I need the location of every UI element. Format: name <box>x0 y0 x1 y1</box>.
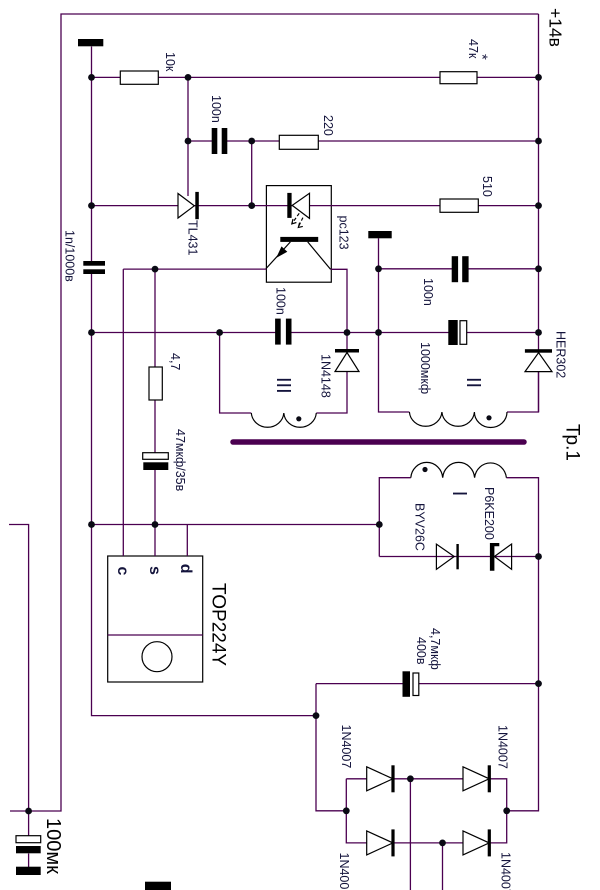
svg-text:II: II <box>462 377 484 388</box>
capacitor C6 1000mkf plates <box>448 320 457 345</box>
wire collector of pc123 to node <box>331 269 348 332</box>
resistor R1 10k <box>120 71 158 84</box>
svg-text:100n: 100n <box>209 95 223 123</box>
wire border loop from +14v rail corner around left side <box>10 14 539 811</box>
svg-text:1N4007: 1N4007 <box>499 852 513 890</box>
node bridge top <box>407 775 414 782</box>
capacitor C4 1n/1000v plates <box>83 261 105 266</box>
wire vertical x=251.7 <box>251 141 253 206</box>
wire TL431 cathode line y=205.6 <box>92 205 539 207</box>
node 100mk x28.6 <box>25 808 32 815</box>
terminal bar top output <box>78 39 103 46</box>
pc123 phototransistor emitter <box>266 242 290 269</box>
svg-text:TOP224Y: TOP224Y <box>208 583 229 666</box>
node y268.8 rail <box>535 265 542 272</box>
capacitor C1 100n top gap <box>216 137 223 146</box>
node clamp rail <box>535 553 542 560</box>
wire s pin vertical x=155 <box>154 269 156 556</box>
svg-text:HER302: HER302 <box>554 331 568 378</box>
wire terminal bar to winding II left leg x=378.5 <box>379 238 410 412</box>
svg-text:TL431: TL431 <box>186 220 200 255</box>
transformer core bar Tp.1 <box>233 439 524 445</box>
svg-text:1N4007: 1N4007 <box>337 853 351 890</box>
terminal bar above pc123 collector <box>368 231 391 238</box>
wire d pin stub <box>186 525 188 557</box>
wire 100n-220 line y=141 <box>188 140 539 142</box>
svg-text:P6KE200: P6KE200 <box>482 487 496 540</box>
wire output minus stub left <box>9 525 29 812</box>
node y524.5 x91.5 <box>88 521 95 528</box>
node y205.6 x91.5 <box>88 202 95 209</box>
node y268.8 x378.5 <box>375 265 382 272</box>
phase dot winding III <box>296 416 301 421</box>
capacitor C5 47mkf/35v gap <box>152 459 158 464</box>
svg-text:Тр.1: Тр.1 <box>562 424 583 461</box>
svg-text:220: 220 <box>321 115 335 136</box>
winding I arcs <box>411 462 507 477</box>
capacitor C2 100n right plates <box>452 256 458 282</box>
resistor R3 220 <box>279 135 318 149</box>
wire bridge left leg <box>316 684 346 811</box>
svg-text:1N4148: 1N4148 <box>319 354 333 398</box>
capacitor C3 100n bottom-left plates <box>275 319 281 345</box>
capacitor C8 100mk gap <box>26 842 31 847</box>
pc123 phototransistor base bar <box>280 237 318 242</box>
node y332.5 x91.5 <box>88 329 95 336</box>
shunt regulator U3 TL431 <box>178 194 194 219</box>
wire winding III left leg <box>220 333 252 414</box>
svg-text:c: c <box>114 567 131 576</box>
node y524.5 x155 <box>152 521 159 528</box>
node emitter line x155 <box>152 266 159 273</box>
diode D3 BYV26C <box>436 544 454 569</box>
capacitor C7 4.7mkf/400v plates <box>403 671 411 697</box>
capacitor C3 100n bottom-left gap <box>280 328 287 337</box>
svg-text:400в: 400в <box>414 637 428 665</box>
svg-text:1N4007: 1N4007 <box>496 725 510 769</box>
wire 4.7mkf line y=683.6 <box>316 683 539 685</box>
node y205.6 rail <box>535 202 542 209</box>
pc123 LED <box>292 193 309 218</box>
capacitor C2 100n right gap <box>457 264 463 274</box>
svg-text:s: s <box>146 566 163 575</box>
svg-text:*: * <box>474 54 491 60</box>
node y205.6 x251.7 <box>248 202 255 209</box>
svg-text:100n: 100n <box>421 278 435 306</box>
optocoupler U1 pc123 body <box>266 186 331 283</box>
diode D1 1N4148 <box>335 353 359 372</box>
node y332.5 rail <box>535 329 542 336</box>
resistor R5 4.7 <box>149 367 162 400</box>
svg-text:1N4007: 1N4007 <box>339 725 353 769</box>
wire TL431 ref stub x=188 <box>187 77 189 196</box>
svg-text:pc123: pc123 <box>337 216 351 250</box>
svg-text:I: I <box>448 491 470 497</box>
wire winding I right leg <box>506 478 538 557</box>
node y141 x251.7 <box>248 138 255 145</box>
svg-text:4,7мкф: 4,7мкф <box>428 628 442 670</box>
wire HER302 lower stub <box>538 372 540 412</box>
wire output plus vertical x=91.5 <box>91 47 93 525</box>
node top line at rail <box>535 74 542 81</box>
node top line at x=91.5 <box>88 74 95 81</box>
svg-text:1n/1000в: 1n/1000в <box>63 230 77 282</box>
wire drain rail y=524.5 <box>92 524 380 526</box>
node y332.5 x378.5 <box>375 329 382 336</box>
resistor R2 47k* <box>440 72 477 84</box>
capacitor C8 100mk plates <box>16 836 41 843</box>
svg-text:10к: 10к <box>163 52 177 72</box>
svg-text:100мк: 100мк <box>42 818 64 874</box>
svg-text:100n: 100n <box>274 287 288 315</box>
wire 100mk cap leads <box>28 811 30 836</box>
svg-text:510: 510 <box>480 176 494 197</box>
wire bridge ac output 2 <box>442 843 444 890</box>
wire source rail lower <box>92 525 317 716</box>
wire top feedback line y=77 <box>92 76 539 78</box>
node bridge right <box>503 807 510 814</box>
terminal bar bottom center <box>145 882 171 890</box>
node y141 x188 <box>185 138 192 145</box>
bridge diode D8 1N4007 bottom-right <box>463 831 489 855</box>
wire 100n right line y=268.8 <box>379 268 539 270</box>
bridge diode D5 1N4007 top-left <box>367 767 393 791</box>
wire bridge ac output 1 <box>409 779 411 890</box>
phase dot winding II <box>486 415 491 420</box>
wire 1N4148 cathode stub <box>346 333 348 350</box>
TOP224Y inner line <box>108 634 203 636</box>
wire +14v vertical rail <box>507 14 539 412</box>
node y524.5 x379.3 <box>376 521 383 528</box>
svg-text:BYV26C: BYV26C <box>413 503 427 551</box>
transil D4 P6KE200 <box>494 544 511 569</box>
svg-text:+14в: +14в <box>546 8 566 47</box>
node y332.5 x347 <box>344 329 351 336</box>
IC U2 TOP224Y body <box>108 556 203 682</box>
node 4.7mkf rail <box>535 680 542 687</box>
winding III arcs <box>251 413 316 427</box>
wire c pin vertical x=123.3 <box>122 269 124 556</box>
winding II arcs <box>409 412 507 428</box>
capacitor C5 47mkf/35v plates <box>143 453 169 460</box>
phase dot winding I <box>422 467 427 472</box>
wire winding I left leg <box>379 478 411 557</box>
node bridge bottom <box>439 840 446 847</box>
node bridge left <box>343 807 350 814</box>
svg-text:4,7: 4,7 <box>168 353 182 370</box>
capacitor C6 1000mkf gap <box>457 329 462 337</box>
wire right rail down to bridge <box>507 557 539 811</box>
node y141 rail <box>535 138 542 145</box>
capacitor C7 4.7mkf/400v gap <box>410 680 414 689</box>
node source rail x316 <box>313 712 320 719</box>
svg-text:d: d <box>177 564 194 574</box>
TOP224Y inner circle <box>142 642 172 672</box>
wire winding III right leg to 1N4148 <box>316 372 347 414</box>
node top line at x=188 <box>185 74 192 81</box>
capacitor C4 1n/1000v gap <box>89 265 94 270</box>
diode D2 HER302 <box>525 353 552 372</box>
wire mid chain y=332.5 <box>92 332 539 334</box>
wire emitter line y=269 <box>123 268 266 270</box>
node y332.5 x219.6 <box>216 329 223 336</box>
terminal bar bottom 100mk <box>16 867 41 875</box>
bridge diode D7 1N4007 bottom-left <box>367 831 393 855</box>
wire clamp line y=558 <box>379 556 538 558</box>
svg-text:1000мкф: 1000мкф <box>418 342 432 394</box>
svg-text:47мкф/35в: 47мкф/35в <box>173 429 187 492</box>
capacitor C1 100n top plates <box>212 128 218 154</box>
resistor R4 510 <box>440 199 478 212</box>
wire bridge ring <box>346 779 506 843</box>
pc123 phototransistor collector <box>308 242 331 269</box>
svg-text:III: III <box>272 377 294 394</box>
pc123 LED light arrows <box>292 213 299 223</box>
bridge diode D6 1N4007 top-right <box>463 767 489 791</box>
